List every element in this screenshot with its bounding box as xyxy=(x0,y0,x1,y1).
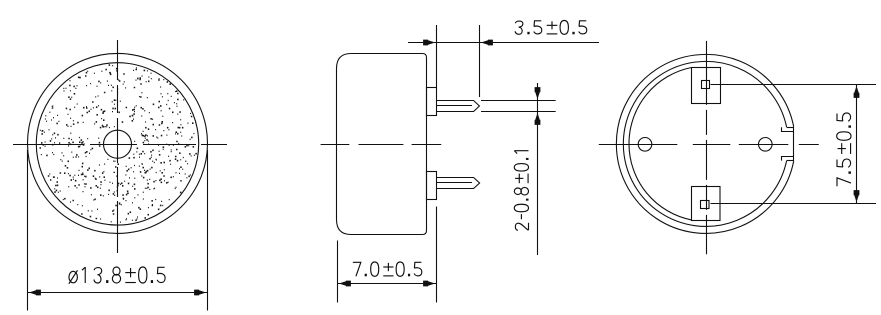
stipple texture xyxy=(40,65,197,222)
dimension line 7.5 vertical xyxy=(856,85,858,204)
arrow right 7.0 xyxy=(423,281,435,287)
side view bottom pin tab xyxy=(427,172,437,200)
bottom pin base rect xyxy=(692,187,721,221)
center hole xyxy=(104,130,132,158)
arrow pointing down at 100.5 for 0.8 xyxy=(535,87,541,99)
extension line right of 7.0 xyxy=(436,207,438,303)
bottom pin xyxy=(437,178,480,189)
arrow left dia 13.8 xyxy=(29,290,41,296)
arrow pointing up at 84.5 for 7.5 xyxy=(854,86,860,98)
front view horizontal centerline xyxy=(13,144,227,146)
dimension text dia 13.8 xyxy=(69,267,165,284)
front view outer circle xyxy=(28,53,208,233)
dimension text 7.5 vertical xyxy=(837,113,851,186)
bottom view inner circle xyxy=(623,61,786,226)
dimension text 2-0.8 vertical xyxy=(514,151,528,231)
extension line bottom of 0.8 xyxy=(481,111,556,113)
arrow pointing up at 111.5 for 0.8 xyxy=(535,113,541,125)
front view vertical centerline xyxy=(117,40,119,253)
dimension line 0.8 vertical xyxy=(537,83,539,255)
top pin xyxy=(437,101,480,112)
bottom view third arc xyxy=(629,68,692,220)
bottom view vertical centerline xyxy=(706,41,708,254)
right hole xyxy=(759,138,773,152)
bottom view outer circle xyxy=(616,54,793,233)
top pin square xyxy=(702,81,710,89)
left hole xyxy=(638,138,652,152)
notch chord xyxy=(793,127,795,161)
side view centerline xyxy=(321,144,442,146)
notch top step xyxy=(782,127,794,131)
notch bottom step xyxy=(782,157,794,161)
dimension line 3.5 xyxy=(408,42,599,44)
arrow left 7.0 xyxy=(339,281,351,287)
dimension line 7.0 xyxy=(338,283,437,285)
arrow pointing down at 203.5 for 7.5 xyxy=(854,190,860,202)
extension line top of 7.5 xyxy=(711,84,877,86)
bottom pin square xyxy=(701,201,710,209)
notch top cap xyxy=(787,127,794,129)
side view body xyxy=(337,54,427,235)
extension line left of dia 13.8 xyxy=(27,150,29,311)
extension line right of 3.5 xyxy=(479,25,481,97)
bottom view horizontal centerline xyxy=(599,144,819,146)
arrow right dia 13.8 xyxy=(194,290,206,296)
arrow pointing right at 436.5 for 3.5 xyxy=(423,40,435,46)
arrow pointing left at 479.5 for 3.5 xyxy=(481,40,493,46)
extension line left of 7.0 xyxy=(337,241,339,303)
side view top pin tab xyxy=(427,88,437,116)
front view inner circle xyxy=(36,63,198,225)
extension line left of 3.5 xyxy=(436,25,438,88)
top pin base rect xyxy=(692,68,721,104)
notch bottom cap xyxy=(787,160,794,162)
dimension text 7.0 xyxy=(353,262,422,276)
dimension text 3.5 xyxy=(515,21,587,35)
extension line top of 0.8 xyxy=(481,100,556,102)
extension line bottom of 7.5 xyxy=(711,203,877,205)
dimension line dia 13.8 xyxy=(28,292,208,294)
extension line right of dia 13.8 xyxy=(207,150,209,311)
